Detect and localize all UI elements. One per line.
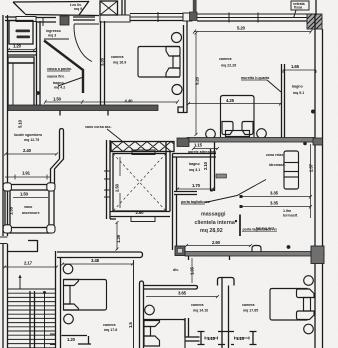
svg-text:massaggi: massaggi <box>201 212 226 218</box>
top wall left segment <box>5 17 56 27</box>
stool circles top-center <box>172 33 182 43</box>
svg-text:5.20: 5.20 <box>237 26 246 31</box>
camera 14.10 texts <box>191 303 208 313</box>
camera top-center right wall <box>178 21 187 113</box>
svg-text:1.5: 1.5 <box>128 322 133 328</box>
dim 1.91 <box>5 171 51 180</box>
dim 2.57 vertical <box>309 144 314 218</box>
bagno top right texts <box>292 85 304 96</box>
elevator inner box with dashed X <box>113 154 166 212</box>
hall ingresso text <box>46 29 62 38</box>
elevator hatched band <box>111 142 174 155</box>
svg-text:3.65: 3.65 <box>178 291 187 296</box>
diagonal sauna wall <box>44 41 83 94</box>
black dot right wall <box>311 110 315 114</box>
svg-text:mq 14.10: mq 14.10 <box>193 309 208 313</box>
bottom window niche left camera <box>62 336 92 345</box>
dim 1.15 corridor <box>188 143 219 155</box>
svg-text:mq 28,92: mq 28,92 <box>200 228 223 234</box>
svg-text:mq 22.26: mq 22.26 <box>221 64 236 68</box>
svg-text:idromass.: idromass. <box>269 163 286 167</box>
svg-text:3.48: 3.48 <box>91 258 100 263</box>
bed camera 14.10 <box>144 305 185 348</box>
window band center <box>130 12 183 22</box>
skylight X-box <box>100 0 125 15</box>
svg-text:camera: camera <box>242 303 254 307</box>
dim line 1.50 / 4.40 <box>36 91 179 104</box>
window band right <box>197 13 314 23</box>
camera 17.85 texts <box>242 303 258 313</box>
left outer wall <box>0 15 8 348</box>
dim 2.17 <box>3 261 58 269</box>
muretto label <box>241 76 281 92</box>
svg-text:1.39: 1.39 <box>116 234 121 243</box>
small texts near radiator <box>256 153 298 231</box>
window sill band left <box>8 57 34 63</box>
main horizontal wall y137-142 <box>177 138 323 147</box>
svg-text:vano: vano <box>24 205 33 209</box>
J-wall door jamb <box>51 129 64 186</box>
sill + dark pillar at x190 <box>183 13 192 21</box>
vano scala label <box>14 133 43 142</box>
svg-text:locale sgombero: locale sgombero <box>14 133 43 137</box>
svg-text:muretto h.quarta: muretto h.quarta <box>241 76 269 80</box>
svg-text:2.40: 2.40 <box>23 148 32 153</box>
svg-text:mq 5.1: mq 5.1 <box>293 91 304 95</box>
svg-text:mq 3: mq 3 <box>48 34 56 38</box>
elevator bottom wall <box>110 210 170 222</box>
svg-text:1.9m: 1.9m <box>283 209 291 213</box>
div wall + dims <box>143 258 219 298</box>
svg-text:3.35: 3.35 <box>100 57 105 66</box>
svg-text:bagno: bagno <box>292 85 303 89</box>
elevator machine label + leader <box>85 125 122 141</box>
corridor left wall down <box>173 195 177 251</box>
svg-text:bagno: bagno <box>189 162 200 166</box>
stair arrows <box>18 275 46 348</box>
closet room top-left <box>9 21 33 45</box>
vano ascensore room box <box>3 183 55 233</box>
bagno small room middle <box>173 142 227 195</box>
wall between camera and bagno top right <box>282 64 285 138</box>
bed camera 17.85 <box>270 276 314 334</box>
label box top right <box>291 1 309 18</box>
bagno labels <box>47 67 82 90</box>
svg-text:1.15: 1.15 <box>207 336 216 341</box>
dim 1.39 below elevator <box>116 221 122 251</box>
svg-text:1.50: 1.50 <box>53 97 62 102</box>
wardrobe tall left <box>8 63 34 107</box>
svg-text:2.17: 2.17 <box>24 261 33 266</box>
dim 2.50 <box>185 240 252 247</box>
svg-text:mq 3.1: mq 3.1 <box>189 168 200 172</box>
massaggi bottom wall <box>175 245 324 263</box>
svg-text:zona relax: zona relax <box>266 153 283 157</box>
svg-text:vano corsa asc.: vano corsa asc. <box>85 125 112 129</box>
right wall double <box>315 0 323 348</box>
svg-text:1.20: 1.20 <box>67 337 76 342</box>
bottom-left camera top wall <box>57 252 143 266</box>
svg-text:mq 12.75: mq 12.75 <box>24 138 39 142</box>
svg-text:3.35: 3.35 <box>270 191 279 196</box>
elevator right edge <box>165 142 167 212</box>
entry sill to camera <box>100 15 130 22</box>
svg-text:ascensore: ascensore <box>22 211 40 215</box>
central wall bottom with cap <box>218 278 235 348</box>
svg-text:termosif.: termosif. <box>283 214 298 218</box>
svg-text:mq 9: mq 9 <box>74 7 82 11</box>
svg-text:mq 16.9: mq 16.9 <box>113 61 126 65</box>
bed top-center <box>138 47 180 78</box>
svg-text:mq 17.85: mq 17.85 <box>243 309 258 313</box>
svg-text:camera: camera <box>111 55 123 59</box>
svg-text:2.50: 2.50 <box>115 183 120 192</box>
camera 14.10 left wall <box>140 281 144 348</box>
svg-text:mq 17.8: mq 17.8 <box>104 328 117 332</box>
terrace trapezoid top-left <box>13 1 99 16</box>
boxed label porta REI <box>235 215 277 237</box>
svg-text:2.50: 2.50 <box>212 240 221 245</box>
bed top-right camera <box>221 96 255 138</box>
svg-text:camera: camera <box>103 323 115 327</box>
svg-text:4.25: 4.25 <box>226 98 235 103</box>
camera 22.26 texts <box>219 57 236 68</box>
dim 1.20 <box>7 44 36 52</box>
stub wall below box <box>8 240 38 252</box>
door arc hall <box>74 23 99 25</box>
svg-text:1.70: 1.70 <box>192 183 201 188</box>
svg-text:2.57: 2.57 <box>309 163 314 172</box>
staircase <box>8 289 57 348</box>
svg-text:1.35: 1.35 <box>9 206 14 215</box>
svg-text:2.60: 2.60 <box>136 210 145 215</box>
massaggi text <box>195 212 235 234</box>
svg-text:1.15: 1.15 <box>236 336 245 341</box>
svg-text:mq 4.2: mq 4.2 <box>54 86 65 90</box>
dim 4.25 <box>187 98 282 106</box>
svg-text:ingresso: ingresso <box>46 29 62 33</box>
svg-text:1.65: 1.65 <box>291 64 300 69</box>
porta tagliafuoco label <box>181 180 266 205</box>
stairwell right wall <box>50 251 61 348</box>
camera left wall x100-105 <box>101 21 105 108</box>
top wall right of entry <box>73 17 95 20</box>
dims 3.35 double <box>240 191 313 209</box>
svg-text:1.15: 1.15 <box>194 143 203 148</box>
bottom window piers <box>198 332 257 345</box>
svg-text:tot.mq.incl.: tot.mq.incl. <box>256 227 275 231</box>
entry door dark block <box>60 16 69 25</box>
svg-text:3.35: 3.35 <box>270 201 279 206</box>
elevator left wall <box>104 140 110 219</box>
svg-text:camera: camera <box>219 57 231 61</box>
svg-text:fissa: fissa <box>294 6 302 10</box>
bottom wall of bagno/camera top <box>8 105 158 116</box>
svg-text:2.10: 2.10 <box>203 161 208 170</box>
L-wall right of bed <box>185 318 200 341</box>
radiator right <box>284 151 299 189</box>
dim 1.65 <box>283 64 316 73</box>
svg-text:bagno: bagno <box>53 81 64 85</box>
bottom-left camera furniture <box>63 264 106 324</box>
svg-text:1.20: 1.20 <box>13 44 22 49</box>
hatched block top right <box>307 14 322 29</box>
dim 2.40 <box>4 148 58 156</box>
svg-text:clientela interna: clientela interna <box>195 220 235 226</box>
svg-text:div.: div. <box>173 268 179 272</box>
camera top-center text <box>111 55 126 65</box>
camera 17.8 text <box>103 323 117 332</box>
bottom-left camera right edge <box>133 260 135 348</box>
svg-text:5.10: 5.10 <box>18 119 23 128</box>
svg-text:5.20: 5.20 <box>195 76 200 85</box>
hall/bagno line <box>44 38 69 40</box>
svg-text:4.40: 4.40 <box>125 99 134 104</box>
dim 5.20 horizontal <box>193 26 313 34</box>
svg-text:1.91: 1.91 <box>22 171 31 176</box>
svg-text:sauna finl.: sauna finl. <box>47 75 65 79</box>
svg-text:1.50: 1.50 <box>20 192 29 197</box>
wall x36-40 <box>37 21 41 107</box>
svg-text:vasca a pavim.: vasca a pavim. <box>47 67 72 71</box>
closet bottom wall <box>7 52 36 56</box>
dim 5.20 vertical <box>195 32 200 137</box>
svg-text:camera: camera <box>191 303 203 307</box>
